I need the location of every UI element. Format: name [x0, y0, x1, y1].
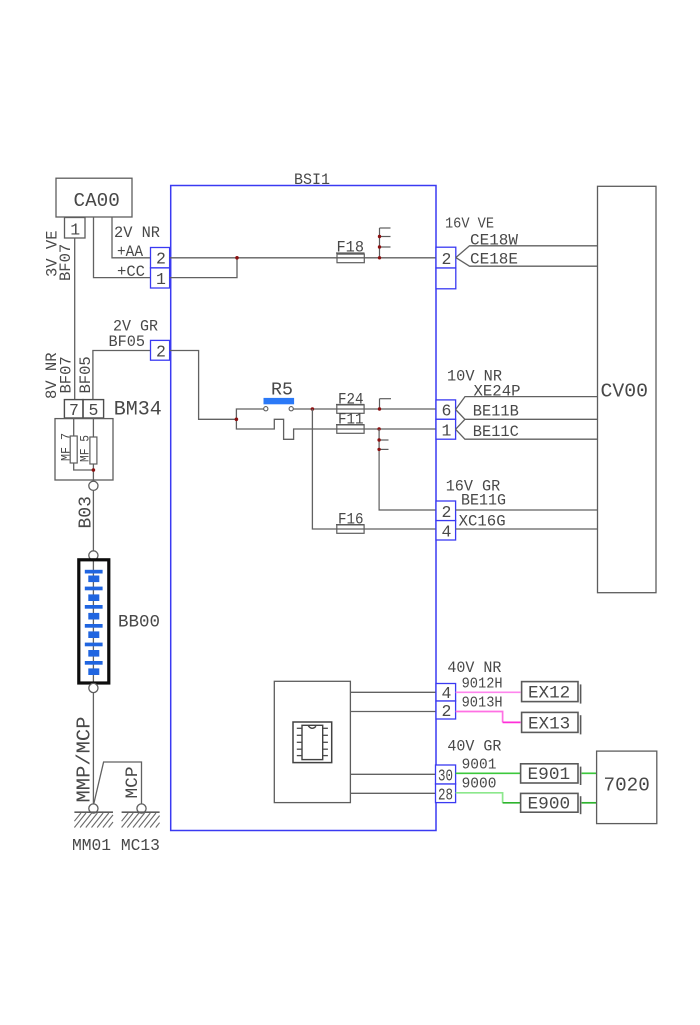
svg-text:MCP: MCP — [123, 766, 143, 798]
component CV00 — [598, 186, 657, 592]
svg-text:F16: F16 — [338, 510, 364, 528]
ground symbol MM01 — [74, 811, 113, 813]
svg-text:XC16G: XC16G — [459, 512, 506, 530]
wire through MF7 — [74, 418, 94, 470]
wire 9012H to EX12 — [456, 691, 521, 693]
wire ECU to pin 30 — [350, 773, 436, 775]
svg-text:BSI1: BSI1 — [294, 171, 330, 189]
pin 2 (BSI right, CE18) — [436, 247, 456, 268]
wire BSI internal BF05 routing — [170, 351, 237, 420]
splice below F11 down to 16V GR pin 2 — [379, 429, 436, 510]
junction F11/splice — [377, 427, 380, 430]
pin 2 (BSI left, BF05) — [151, 340, 170, 360]
svg-text:XE24P: XE24P — [474, 383, 521, 401]
connector circle above BB00 — [89, 551, 98, 560]
svg-text:30: 30 — [438, 767, 453, 786]
wire BE11B fan from pin6 and pin1 to CV00 — [456, 410, 598, 420]
pin 4 (BSI right, 16V GR) — [436, 521, 456, 540]
svg-text:40V NR: 40V NR — [447, 659, 501, 677]
junction BF05/R5 — [235, 418, 239, 422]
connector pin 5 of BM34 — [83, 400, 104, 418]
pin 4 (BSI right, 40V NR) — [436, 684, 456, 702]
R5 contact circles — [264, 407, 268, 411]
svg-text:2: 2 — [442, 250, 452, 269]
svg-text:MMP/MCP: MMP/MCP — [74, 717, 96, 803]
svg-text:F18: F18 — [337, 239, 365, 257]
wire B03 — [92, 490, 94, 550]
svg-text:F24: F24 — [338, 390, 364, 408]
svg-text:EX12: EX12 — [528, 684, 570, 704]
pin 1 (BSI right) — [436, 419, 456, 439]
fuse F11 — [336, 425, 365, 434]
wire R5 left leg and meander — [236, 409, 436, 439]
svg-text:1: 1 — [156, 270, 166, 289]
svg-text:7020: 7020 — [604, 774, 650, 796]
svg-text:1: 1 — [442, 421, 452, 440]
svg-text:5: 5 — [89, 401, 99, 420]
svg-text:MM01 MC13: MM01 MC13 — [72, 836, 160, 855]
svg-text:BB00: BB00 — [118, 613, 160, 633]
pin 1 (BSI left, +CC) — [151, 268, 170, 288]
svg-text:9001: 9001 — [462, 757, 497, 773]
svg-text:9000: 9000 — [462, 777, 497, 793]
component EX13 — [522, 712, 578, 732]
component BM34 box — [55, 419, 113, 480]
splice above F18 — [380, 228, 391, 258]
svg-text:28: 28 — [438, 785, 453, 804]
wire 9000 to E900 — [456, 793, 503, 803]
wire XC16G to CV00 — [456, 528, 598, 530]
svg-text:2: 2 — [156, 250, 166, 269]
wire CE18E fan to CV00 — [456, 258, 598, 267]
fuse F16 — [336, 525, 365, 534]
svg-text:2: 2 — [156, 343, 166, 362]
junction R5/F16 — [311, 407, 315, 411]
svg-text:40V GR: 40V GR — [447, 738, 501, 756]
wire E901 to 7020 — [582, 772, 597, 774]
wire ECU to pin 2 — [350, 711, 436, 713]
wire CA00 pin1 down to BM34 pin 7 — [74, 238, 76, 400]
component E900 — [521, 793, 578, 812]
svg-text:MF 7: MF 7 — [60, 433, 74, 461]
component EX12 — [522, 682, 578, 702]
svg-text:BM34: BM34 — [114, 398, 162, 421]
wire ECU to pin 28 — [350, 792, 436, 794]
wire E900 to 7020 — [582, 802, 597, 804]
fuse MF5 — [90, 437, 97, 464]
wire junction down to F16 and pin 4 — [312, 409, 436, 529]
svg-text:CA00: CA00 — [74, 190, 120, 212]
svg-text:F11: F11 — [338, 410, 364, 428]
ground symbol MC13 — [122, 811, 160, 813]
branch wire to MCP ground — [94, 762, 142, 804]
svg-text:E901: E901 — [528, 765, 571, 785]
wire MMP/MCP — [92, 693, 94, 804]
component BSI1 box — [171, 186, 436, 831]
fuse F18 — [336, 253, 365, 263]
svg-text:16V VE: 16V VE — [445, 215, 494, 233]
svg-text:BF07: BF07 — [57, 244, 75, 281]
pin 2 (BSI left, +AA) — [151, 248, 170, 268]
wire XE24P fan to CV00 — [456, 397, 598, 410]
pin 2 (BSI right, 16V GR) — [436, 501, 456, 521]
wire BE11G to CV00 — [456, 509, 598, 511]
wire BSI internal +AA to F18 to right pin 2 — [170, 257, 436, 259]
battery BB00 — [92, 560, 94, 683]
wire R5 right to F24 and pin 6 — [293, 408, 436, 410]
svg-text:E900: E900 — [528, 795, 571, 815]
svg-text:CV00: CV00 — [601, 380, 648, 402]
wire +AA from CA00 to BSI pin 2 — [112, 217, 151, 258]
wire through MF5 — [92, 418, 94, 485]
fuse F24 — [336, 405, 365, 414]
wire BSI internal +CC riser — [170, 258, 237, 278]
svg-text:4: 4 — [442, 522, 452, 541]
junction +AA/+CC — [235, 256, 239, 260]
ground circle MC13 — [137, 804, 146, 813]
wire BE11C fan to CV00 — [456, 429, 598, 439]
wire ECU to pin 4 — [350, 691, 436, 693]
wire +CC from CA00 to BSI pin 1 — [94, 217, 151, 278]
svg-text:9013H: 9013H — [462, 696, 503, 712]
svg-text:BF05: BF05 — [77, 356, 95, 393]
svg-text:BF07: BF07 — [58, 356, 76, 393]
wire 9013H to EX13 — [456, 712, 503, 723]
empty pin box below pin 2 — [436, 268, 456, 289]
svg-text:9012H: 9012H — [462, 676, 503, 692]
connector circle below BM34 — [89, 481, 98, 490]
svg-text:6: 6 — [442, 402, 452, 421]
ECU module box inside BSI — [274, 681, 350, 802]
pin 6 (BSI right) — [436, 400, 456, 419]
wire CE18W fan to CV00 — [456, 246, 598, 258]
svg-text:2: 2 — [442, 702, 452, 721]
IC chip symbol — [293, 722, 332, 763]
component 7020 — [597, 751, 657, 824]
pin 30 (BSI right, 40V GR) — [436, 765, 456, 784]
svg-text:BE11G: BE11G — [461, 492, 506, 510]
wire BSI BF05 pin 2 to BM34 pin 5 — [93, 351, 151, 400]
connector circle below BB00 — [89, 683, 98, 692]
relay R5 highlight bar — [264, 398, 295, 404]
component CA00 — [56, 178, 132, 217]
svg-text:EX13: EX13 — [528, 714, 570, 734]
junction MF7/MF5 — [92, 468, 96, 472]
pin 28 (BSI right, 40V GR) — [436, 784, 456, 803]
svg-text:MF 5: MF 5 — [79, 435, 93, 462]
svg-text:R5: R5 — [271, 380, 293, 400]
connector pin 7 of BM34 — [64, 400, 83, 418]
wire 9001 to E901 — [456, 772, 521, 774]
fuse MF7 — [70, 436, 77, 463]
component E901 — [521, 764, 578, 783]
ground circle MM01 — [89, 804, 98, 813]
svg-text:CE18W: CE18W — [470, 231, 518, 249]
pin 2 (BSI right, 40V NR) — [436, 701, 456, 719]
splice above F24 — [380, 399, 392, 409]
svg-text:BE11B: BE11B — [473, 402, 519, 420]
svg-text:1: 1 — [70, 220, 80, 239]
svg-text:2: 2 — [442, 503, 452, 522]
svg-text:7: 7 — [69, 401, 79, 420]
svg-text:BE11C: BE11C — [473, 423, 519, 441]
connector pin 1 of CA00 — [65, 218, 86, 239]
svg-text:2V NR: 2V NR — [114, 224, 160, 242]
svg-text:BF05: BF05 — [109, 333, 146, 351]
